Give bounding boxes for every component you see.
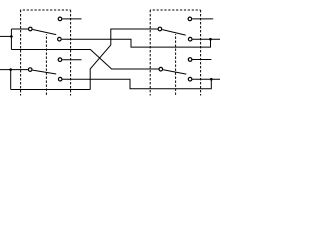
switch S2 upper throw contact — [58, 58, 62, 62]
wire Q input B to S3 common crossover — [90, 29, 158, 90]
right enclosure left dashed edge — [149, 10, 151, 96]
wire input A riser — [10, 29, 12, 50]
wire input A horizontal — [0, 35, 11, 37]
wire feed to S1 common — [11, 28, 28, 30]
switch S4 upper throw contact — [188, 58, 192, 62]
left enclosure left dashed edge — [20, 10, 22, 96]
switch S3 upper throw contact — [188, 17, 192, 21]
right enclosure right dashed edge — [200, 10, 202, 96]
switch S3 arm — [162, 30, 185, 35]
switch S3 lower throw contact — [188, 37, 192, 41]
switch S2 common contact — [28, 68, 32, 72]
switch S4 arm — [163, 70, 186, 74]
wire S1 upper throw stub — [62, 18, 81, 20]
junction output B — [210, 78, 213, 81]
left enclosure middle dashed divider — [45, 34, 47, 96]
junction output A — [209, 38, 212, 41]
wire S4 lower throw stub / output B — [193, 78, 221, 80]
wire input B horizontal — [0, 69, 28, 71]
switch S2 lower throw contact — [58, 77, 62, 81]
switch S4 common contact — [159, 67, 163, 71]
wire S3 upper throw stub — [192, 18, 213, 20]
junction input B — [9, 68, 12, 71]
switch S4 lower throw contact — [188, 77, 192, 81]
left enclosure right dashed edge — [70, 10, 72, 96]
wire S4 upper throw stub — [193, 59, 212, 61]
wire output B runner from S2 lower throw — [63, 79, 212, 89]
wire P input A to S4 common crossover — [11, 50, 158, 70]
wire output A runner from S1 lower throw — [62, 39, 211, 47]
switch S3 common contact — [158, 27, 162, 31]
right switch-group dashed enclosure top edge — [150, 9, 201, 11]
junction input A — [10, 35, 13, 38]
switch S1 upper throw contact — [58, 17, 62, 21]
right enclosure middle dashed divider — [175, 34, 177, 96]
switch S1 lower throw contact — [58, 37, 62, 41]
wire S2 upper throw stub — [62, 59, 81, 61]
wire input B riser — [10, 70, 12, 90]
wire bottom left to crossover — [11, 89, 91, 91]
left switch-group dashed enclosure top edge — [20, 9, 71, 11]
switch S1 arm — [33, 30, 57, 35]
switch S2 arm — [33, 70, 57, 74]
switch S1 common contact — [29, 27, 33, 31]
wire S3 lower throw stub / output A — [193, 38, 220, 40]
